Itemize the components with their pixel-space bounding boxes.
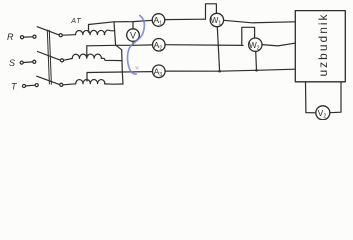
tap wiper T <box>86 73 88 81</box>
ammeter A3 <box>153 65 166 78</box>
wire A1 to W1 <box>165 18 206 20</box>
switch blade S <box>38 52 61 61</box>
wire L3 end to bus <box>105 83 123 85</box>
tap wiper R <box>88 25 90 32</box>
switch contact R <box>59 34 62 37</box>
switch contact T <box>60 83 63 86</box>
node R label <box>7 32 14 42</box>
node T label <box>11 82 18 92</box>
switch blade R <box>37 27 59 35</box>
wire R terminal link <box>24 36 33 38</box>
winding L2 (autotransformer phase S) <box>72 54 101 58</box>
winding L3 (autotransformer phase T) <box>76 79 105 83</box>
ammeter A1 <box>152 14 165 27</box>
paper background <box>0 0 353 120</box>
switch gang bar <box>47 30 49 84</box>
wattmeter W2 <box>249 38 262 51</box>
wire star bus upper <box>114 22 116 46</box>
voltmeter V <box>127 29 140 42</box>
wire rail T (tap to A3) <box>87 71 153 74</box>
terminal T left <box>22 84 25 87</box>
wire box to V2 right <box>330 82 341 113</box>
terminal R left <box>20 36 23 39</box>
svg-text:R: R <box>7 32 14 42</box>
wire V bottom stub <box>132 41 134 45</box>
ammeter A2 <box>153 39 166 52</box>
wattmeter W1 <box>210 13 223 26</box>
wire rail R (tap to A1) <box>89 20 153 24</box>
wire V top stub <box>132 22 134 29</box>
annotation red x <box>136 67 139 70</box>
terminal S right <box>33 60 36 63</box>
switch contact S <box>60 59 63 62</box>
wire rail S (tap to A2) <box>87 44 153 47</box>
tap wiper S <box>86 46 88 55</box>
wire A2 to W2 <box>165 44 243 47</box>
svg-text:V: V <box>130 30 136 40</box>
annotation blue stroke <box>127 16 144 75</box>
junction W1 lead <box>218 70 221 73</box>
label AT <box>70 16 81 25</box>
svg-text:AT: AT <box>70 16 81 25</box>
wire L1 end to bus <box>104 30 114 34</box>
wire star bus lower <box>116 45 123 84</box>
switch blade T <box>37 76 60 84</box>
junction W2 lead <box>255 69 258 72</box>
wire box to V2 left <box>306 82 316 113</box>
wire L2 end to bus <box>101 58 122 60</box>
wire S terminal link <box>24 61 33 64</box>
svg-text:S: S <box>9 58 15 68</box>
svg-text:uzbudnik: uzbudnik <box>316 12 330 76</box>
wattmeter W2 current loop <box>242 27 255 45</box>
wire S switch to coil <box>64 59 72 61</box>
node S label <box>9 58 15 68</box>
terminal T right <box>35 84 38 87</box>
wire R switch to coil <box>63 34 76 37</box>
wire T terminal link <box>26 84 35 87</box>
wattmeter W1 current loop <box>206 4 217 19</box>
wire T switch to coil <box>63 84 76 85</box>
terminal R right <box>33 35 36 38</box>
wire A3 to box <box>165 69 295 71</box>
box uzbudnik (exciter) <box>295 11 345 82</box>
wire W2 voltage lead <box>255 51 258 70</box>
wire W2 to box <box>262 43 295 46</box>
terminal S left <box>20 61 23 64</box>
voltmeter V2 <box>316 106 330 120</box>
winding L1 (autotransformer phase R) <box>75 30 104 34</box>
wire W1 voltage lead <box>217 27 219 71</box>
wire W1 to box <box>224 20 295 23</box>
